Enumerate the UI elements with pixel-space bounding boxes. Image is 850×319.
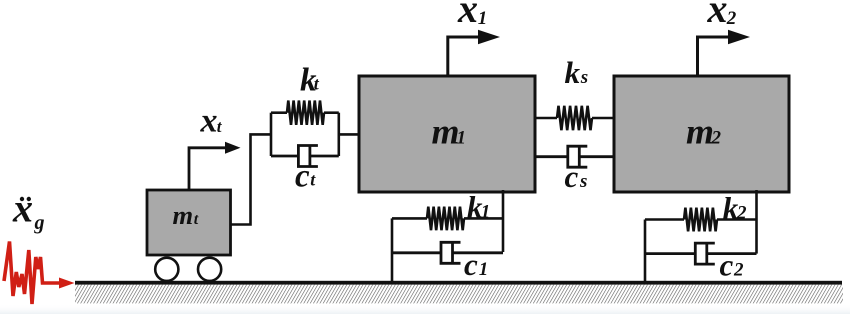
svg-text:x: x <box>12 186 33 231</box>
mass m1 block <box>359 76 535 192</box>
svg-text:c: c <box>565 159 579 194</box>
wheel left of cart <box>155 258 178 281</box>
label c2 <box>720 248 745 283</box>
wire m1 to spring ks <box>535 117 557 120</box>
label mt <box>173 200 199 230</box>
label m2 <box>686 112 722 152</box>
label m1 <box>432 112 467 152</box>
label xg (ground acceleration) <box>12 186 45 235</box>
label kt <box>300 63 320 99</box>
arrow xt <box>189 142 241 190</box>
mass mt cart body <box>147 190 231 255</box>
spring k1 <box>427 207 464 231</box>
svg-text:c: c <box>295 159 310 195</box>
wire spring k1 to right bar <box>464 217 503 220</box>
arrow x2 <box>698 30 751 76</box>
arrow x1 <box>448 30 500 76</box>
svg-text:2: 2 <box>736 203 747 224</box>
svg-text:2: 2 <box>711 128 722 149</box>
svg-text:s: s <box>580 67 588 88</box>
label x2 <box>707 0 737 31</box>
svg-text:1: 1 <box>478 8 488 29</box>
svg-text:x: x <box>707 0 728 31</box>
svg-text:2: 2 <box>726 8 737 29</box>
label c1 <box>464 247 488 282</box>
wire from cart to kt-ct bracket <box>231 134 272 224</box>
label ct <box>295 159 316 195</box>
svg-text:g: g <box>34 212 45 234</box>
wire left bar to spring k1 <box>392 217 427 220</box>
left bar of k2-c2 to ground <box>644 220 647 282</box>
label ks <box>565 55 589 90</box>
damper c2 <box>645 243 757 264</box>
wire spring ks to m2 <box>592 117 614 120</box>
svg-text:k: k <box>565 55 581 90</box>
svg-text:x: x <box>457 0 478 31</box>
left bar of k1-c1 to ground <box>391 218 394 281</box>
svg-text:m: m <box>173 200 194 230</box>
svg-text:s: s <box>579 171 587 192</box>
svg-text:t: t <box>194 211 199 228</box>
wire spring k2 to right bar <box>717 218 757 221</box>
damper ct <box>271 146 339 167</box>
label k2 <box>723 191 747 226</box>
svg-text:2: 2 <box>733 260 744 281</box>
svg-text:1: 1 <box>457 128 467 149</box>
svg-text:c: c <box>464 247 478 282</box>
support bar from m2 down (right bar of k2-c2) <box>755 190 758 254</box>
seismic signal xg waveform <box>4 242 75 305</box>
label xt <box>200 103 223 140</box>
spring ks <box>557 106 592 130</box>
bottom page shading <box>0 304 850 314</box>
wheel right of cart <box>198 258 221 281</box>
svg-text:1: 1 <box>481 202 491 223</box>
wire left bar to spring k2 <box>645 218 684 221</box>
svg-text:1: 1 <box>479 259 489 280</box>
svg-text:m: m <box>686 112 714 152</box>
ground hatching <box>75 285 843 304</box>
support bar from m1 down (right bar of k1-c1) <box>502 190 505 252</box>
kt-ct bracket frame <box>271 113 359 156</box>
svg-text:c: c <box>720 248 734 283</box>
mass m2 block <box>614 76 789 192</box>
ground line <box>75 281 842 285</box>
label x1 <box>457 0 487 31</box>
label k1 <box>467 190 490 225</box>
damper cs <box>535 146 614 167</box>
spring kt <box>287 101 324 125</box>
label cs <box>565 159 588 194</box>
svg-text:m: m <box>432 112 460 152</box>
svg-text:x: x <box>200 103 218 140</box>
damper c1 <box>392 242 503 263</box>
spring k2 <box>684 208 717 232</box>
